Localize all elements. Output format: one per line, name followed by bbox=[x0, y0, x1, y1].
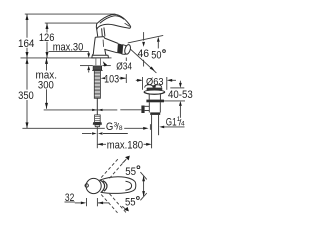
svg-text:40-53: 40-53 bbox=[168, 89, 193, 101]
deck hole edge right bbox=[100, 58, 102, 65]
max30 vertical bottom tail bbox=[88, 70, 90, 72]
55 bottom arrowhead bbox=[124, 207, 129, 212]
top view lever bbox=[85, 177, 136, 194]
popup plug knob outline bbox=[145, 85, 162, 88]
32 ticks bbox=[86, 198, 88, 206]
arrow Ø63 right bbox=[167, 79, 172, 82]
46 vertical V1 lower seg bbox=[143, 60, 145, 67]
32 right tail bbox=[98, 202, 109, 204]
40-53 arrow tails bbox=[179, 81, 181, 84]
svg-text:max.30: max.30 bbox=[53, 41, 84, 53]
tailpiece nut dark bbox=[150, 112, 160, 115]
dimension 350 line bbox=[26, 58, 28, 90]
drain dark mid band bbox=[146, 100, 164, 103]
arrow 164 top bbox=[26, 14, 29, 20]
G3/8 nut bbox=[95, 115, 101, 122]
arrow 350 bottom bbox=[26, 122, 29, 128]
arrow 40-53 bottom (up) bbox=[179, 101, 182, 106]
flange ellipse bbox=[144, 90, 165, 94]
base escutcheon bbox=[92, 55, 109, 58]
103 dimension line bbox=[119, 77, 126, 79]
max300 bottom reference line bbox=[44, 109, 118, 111]
dimension 126 line bbox=[46, 23, 48, 32]
32 leader/underline bbox=[65, 201, 75, 203]
arrow 103 left bbox=[101, 77, 106, 79]
arrow V2 up bbox=[157, 37, 160, 42]
facing arrow pair at hose y133.5 bbox=[92, 132, 97, 134]
50 vertical V2 bbox=[157, 42, 159, 49]
svg-text:8: 8 bbox=[119, 125, 123, 132]
hose line bbox=[96, 98, 98, 115]
drain body lower bbox=[148, 102, 150, 112]
tailpiece bbox=[151, 115, 153, 148]
drain body stem bbox=[148, 94, 150, 100]
threaded shank bbox=[94, 71, 100, 98]
Ø63 dim line right bbox=[172, 79, 177, 81]
body right top corner to spout bbox=[103, 37, 105, 38]
arrow 164 bottom bbox=[26, 52, 29, 58]
deck top stub right bbox=[108, 57, 111, 59]
dashed rotated lever u1 bbox=[101, 158, 118, 177]
spout top edge bbox=[104, 38, 118, 43]
arrow Ø34 leader bbox=[103, 61, 107, 66]
G1 1/4 leader bbox=[164, 126, 185, 128]
svg-text:Ø34: Ø34 bbox=[116, 61, 132, 72]
rod nut dark bbox=[141, 106, 144, 114]
flange bottom arc heavier bbox=[144, 92, 164, 95]
55 bottom arrow tail bbox=[122, 206, 126, 209]
arrow 350ref right bbox=[143, 127, 148, 130]
top view vertical arrow top bbox=[142, 176, 145, 181]
arrow max180 left bbox=[97, 143, 102, 146]
body right edge below spout bbox=[105, 49, 107, 55]
spout bottom edge bbox=[105, 49, 118, 52]
max180 dim line left seg bbox=[97, 143, 106, 145]
deck hole edge left bbox=[95, 58, 97, 65]
350 bottom reference line bbox=[22, 127, 144, 129]
handle neck inner bbox=[101, 28, 104, 36]
neck arcs bbox=[100, 180, 105, 193]
arrow max300 top bbox=[45, 58, 48, 64]
svg-text:32: 32 bbox=[65, 192, 74, 204]
arrow max30 top (down) bbox=[87, 53, 90, 58]
103 right extension line bbox=[125, 58, 127, 65]
55 top arrow tail bbox=[122, 159, 126, 163]
knob dot bbox=[85, 184, 88, 187]
Ø63 dim line left bbox=[136, 79, 142, 81]
svg-text:G: G bbox=[106, 121, 113, 133]
svg-text:50: 50 bbox=[151, 49, 161, 61]
arrow 103 right bbox=[121, 77, 126, 80]
aerator tip ellipse bbox=[124, 44, 132, 55]
arrow 32 right bbox=[98, 202, 103, 205]
extension line top (164 level) bbox=[25, 13, 116, 15]
locknut below deck bbox=[93, 66, 102, 70]
arrow Ø63 left bbox=[137, 79, 142, 82]
svg-text:55: 55 bbox=[125, 166, 136, 178]
handle inner accent bbox=[100, 16, 125, 23]
body left edge bbox=[92, 37, 95, 55]
vertical double arrow line bbox=[143, 176, 145, 196]
top view swing lines bbox=[101, 158, 147, 212]
Ø63 ticks bbox=[142, 77, 144, 90]
washer bbox=[92, 70, 102, 72]
svg-text:300: 300 bbox=[38, 79, 54, 91]
deck bottom stub right bbox=[102, 65, 110, 67]
dimension max300 line bbox=[46, 58, 48, 71]
svg-text:103: 103 bbox=[104, 73, 119, 85]
max30 leader bbox=[49, 51, 89, 53]
facing arrow pair at hose on max300 ref bbox=[92, 109, 97, 111]
drain assembly bbox=[144, 85, 165, 149]
dashed rotated lever d2 bbox=[110, 194, 127, 213]
46 vertical V1 top bbox=[143, 32, 145, 41]
deck top line bbox=[21, 57, 95, 59]
jet line L2 bbox=[127, 46, 157, 73]
label G3/8 bbox=[106, 121, 123, 133]
jet line L1 bbox=[128, 35, 163, 43]
40-53 top ref line bbox=[170, 87, 184, 89]
55 top arrowhead bbox=[125, 156, 130, 161]
paddle inner end arc bbox=[125, 181, 131, 190]
white text backplates bbox=[105, 121, 124, 131]
facing arrows line y133.5 right dash bbox=[103, 133, 128, 135]
max180 dim line right seg bbox=[144, 143, 147, 145]
svg-text:Ø63: Ø63 bbox=[146, 77, 164, 88]
arrow max30 bottom (up) bbox=[87, 66, 90, 71]
arrow max180 right bbox=[146, 143, 151, 146]
faucet side view bbox=[92, 14, 131, 58]
paddle bbox=[101, 177, 136, 194]
svg-text:46: 46 bbox=[138, 48, 150, 60]
svg-text:350: 350 bbox=[18, 90, 34, 102]
arrow 350 top bbox=[26, 58, 29, 64]
tick at drain pipe for 350 ref bbox=[149, 124, 151, 130]
body top bbox=[95, 36, 104, 39]
handle neck right bbox=[104, 27, 105, 36]
dimension 164 line bbox=[26, 14, 28, 38]
svg-text:55: 55 bbox=[125, 197, 136, 209]
plug center notch dark bbox=[153, 85, 156, 88]
arrow on L2 down-right bbox=[150, 67, 155, 71]
handle neck left bbox=[97, 29, 98, 36]
tick seg at top arrow bbox=[140, 172, 146, 179]
max30 vertical top part bbox=[88, 52, 90, 54]
max180 left extension (hose centerline) bbox=[96, 127, 98, 148]
pipe stub to rod bbox=[145, 105, 150, 107]
arrow G1-1/4 leader bbox=[159, 126, 164, 129]
dashed rotated lever d1 bbox=[101, 195, 117, 213]
svg-text:G1: G1 bbox=[166, 117, 177, 129]
svg-text:max.180: max.180 bbox=[107, 140, 143, 152]
aerator bbox=[117, 43, 131, 55]
40-53 bottom ref line bbox=[164, 100, 185, 102]
arrow 32 left bbox=[81, 202, 86, 205]
handle lever bbox=[96, 14, 130, 29]
arrowheads bbox=[26, 14, 182, 204]
under-deck mounting bbox=[92, 66, 102, 127]
arrow 126 top bbox=[46, 23, 49, 29]
arrow max300 bottom bbox=[45, 103, 48, 109]
dashed rotated lever u2 bbox=[110, 159, 127, 178]
knob circle bbox=[86, 178, 101, 193]
top view vertical arrow bottom bbox=[142, 191, 145, 196]
tick seg at bottom arrow bbox=[140, 193, 146, 200]
arrow 40-53 top (down) bbox=[179, 83, 182, 88]
svg-text:164: 164 bbox=[18, 38, 34, 50]
svg-text:4: 4 bbox=[181, 121, 185, 128]
deck bottom line bbox=[80, 65, 93, 67]
plug dark skirt bbox=[147, 88, 163, 91]
extension line 126 level bbox=[45, 22, 97, 24]
arrow V1 down bbox=[142, 42, 145, 47]
label G1 1/4 bbox=[166, 116, 185, 129]
G3/8 cone flange bbox=[93, 122, 102, 125]
arrow 126 bottom bbox=[46, 52, 49, 58]
facing arrows line y133.5 left dash bbox=[82, 133, 92, 135]
